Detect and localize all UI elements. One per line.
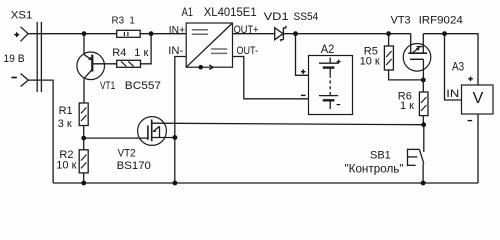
wire R5 bottom to gate node: [389, 70, 424, 80]
svg-text:1: 1: [129, 15, 134, 26]
svg-text:1 к: 1 к: [134, 47, 148, 59]
wire A1 OUT- to A2 minus: [233, 57, 309, 99]
wire R1 to R2: [83, 126, 85, 150]
svg-text:A1: A1: [182, 7, 193, 19]
svg-text:10 к: 10 к: [360, 55, 380, 67]
node SB1 top: [421, 122, 426, 127]
node VT2 source on minus rail: [173, 135, 178, 140]
wire R3 to A1 IN+: [140, 33, 186, 35]
svg-text:VT3: VT3: [391, 14, 411, 26]
label - of battery: [337, 104, 341, 106]
node SB1 bottom: [421, 181, 426, 186]
resistor R4: [117, 60, 141, 67]
wire R4 to VT1 base: [93, 63, 117, 65]
wire gate of VT2: [84, 137, 148, 139]
resistor R5: [384, 46, 393, 70]
node R3/R4 junction: [149, 31, 154, 36]
node R1/R2/gate junction: [81, 136, 86, 141]
svg-text:SB1: SB1: [370, 150, 391, 162]
wire IN sense to A3: [445, 34, 462, 100]
wire A2 plus: [296, 34, 309, 76]
wire R2 to bottom rail: [83, 173, 85, 183]
wire R6 to SB1 node: [422, 116, 424, 125]
svg-text:VT2: VT2: [118, 147, 136, 159]
wire VD1 to VT3 source: [283, 33, 410, 35]
node gate VT3: [421, 78, 426, 83]
svg-text:IN: IN: [446, 88, 459, 100]
svg-text:A2: A2: [321, 44, 335, 56]
converter A1: [186, 23, 232, 70]
wire R4 riser to node: [141, 34, 152, 64]
resistor R2: [79, 150, 88, 173]
label + of battery: [337, 60, 341, 64]
svg-text:VD1: VD1: [264, 11, 289, 23]
svg-text:R3: R3: [112, 15, 125, 26]
pin - of XS1: [21, 74, 29, 87]
svg-text:19 В: 19 В: [3, 53, 24, 65]
button SB1: [408, 125, 424, 183]
wire A1 IN- down: [175, 57, 186, 184]
node A2 plus tap: [293, 31, 298, 36]
svg-text:1 к: 1 к: [400, 100, 414, 112]
diode VD1: [275, 26, 286, 42]
wire drain VT2 to SB1 node: [152, 123, 424, 125]
wire VT3 drain to A3: [423, 34, 478, 85]
svg-text:"Контроль": "Контроль": [345, 163, 404, 175]
svg-text:BS170: BS170: [117, 160, 151, 172]
svg-text:XL4015E1: XL4015E1: [204, 7, 257, 19]
wire top rail from XS1+ to R3: [28, 33, 117, 35]
svg-text:SS54: SS54: [294, 11, 319, 23]
transistor VT3: [403, 34, 431, 80]
svg-text:XS1: XS1: [11, 10, 33, 22]
transistor VT1: [77, 34, 105, 103]
svg-text:R1: R1: [59, 105, 73, 117]
label + pin A3: [468, 77, 473, 82]
svg-text:IN-: IN-: [168, 45, 183, 57]
label + pin A2: [301, 69, 306, 74]
label - pin A3: [468, 120, 473, 122]
resistor R6: [419, 92, 428, 116]
wire A3 minus down: [477, 114, 479, 183]
transistor VT2: [138, 117, 175, 146]
svg-text:IN+: IN+: [169, 24, 185, 36]
svg-text:VT1: VT1: [100, 80, 115, 92]
svg-text:10 к: 10 к: [56, 160, 76, 172]
node emitter tap VT1: [82, 31, 87, 36]
pin + of XS1: [21, 27, 29, 42]
label - pin A2: [301, 94, 306, 96]
svg-text:BC557: BC557: [125, 80, 161, 92]
battery A2: [309, 56, 353, 115]
node R2 bottom: [81, 181, 86, 186]
svg-text:A3: A3: [452, 62, 464, 74]
label + polarity: [14, 32, 19, 37]
label - polarity: [11, 77, 17, 79]
resistor R3: [117, 30, 141, 37]
resistor R1: [79, 103, 88, 126]
node R5 tap: [386, 31, 391, 36]
wire OUT+ to VD1: [233, 33, 275, 35]
svg-text:OUT-: OUT-: [237, 45, 259, 57]
svg-text:3 к: 3 к: [58, 118, 72, 130]
node voltmeter sense tap: [442, 31, 447, 36]
connector XS1: [37, 22, 41, 92]
wire gate node to R6: [422, 80, 424, 92]
svg-text:R4: R4: [112, 47, 126, 59]
wire XS1 minus down: [28, 80, 53, 183]
node minus rail bottom: [173, 181, 178, 186]
svg-text:IRF9024: IRF9024: [419, 14, 463, 26]
wire R5 top: [388, 34, 390, 46]
wire bottom rail: [53, 182, 478, 184]
svg-text:V: V: [473, 90, 484, 107]
voltmeter A3: [462, 85, 494, 114]
